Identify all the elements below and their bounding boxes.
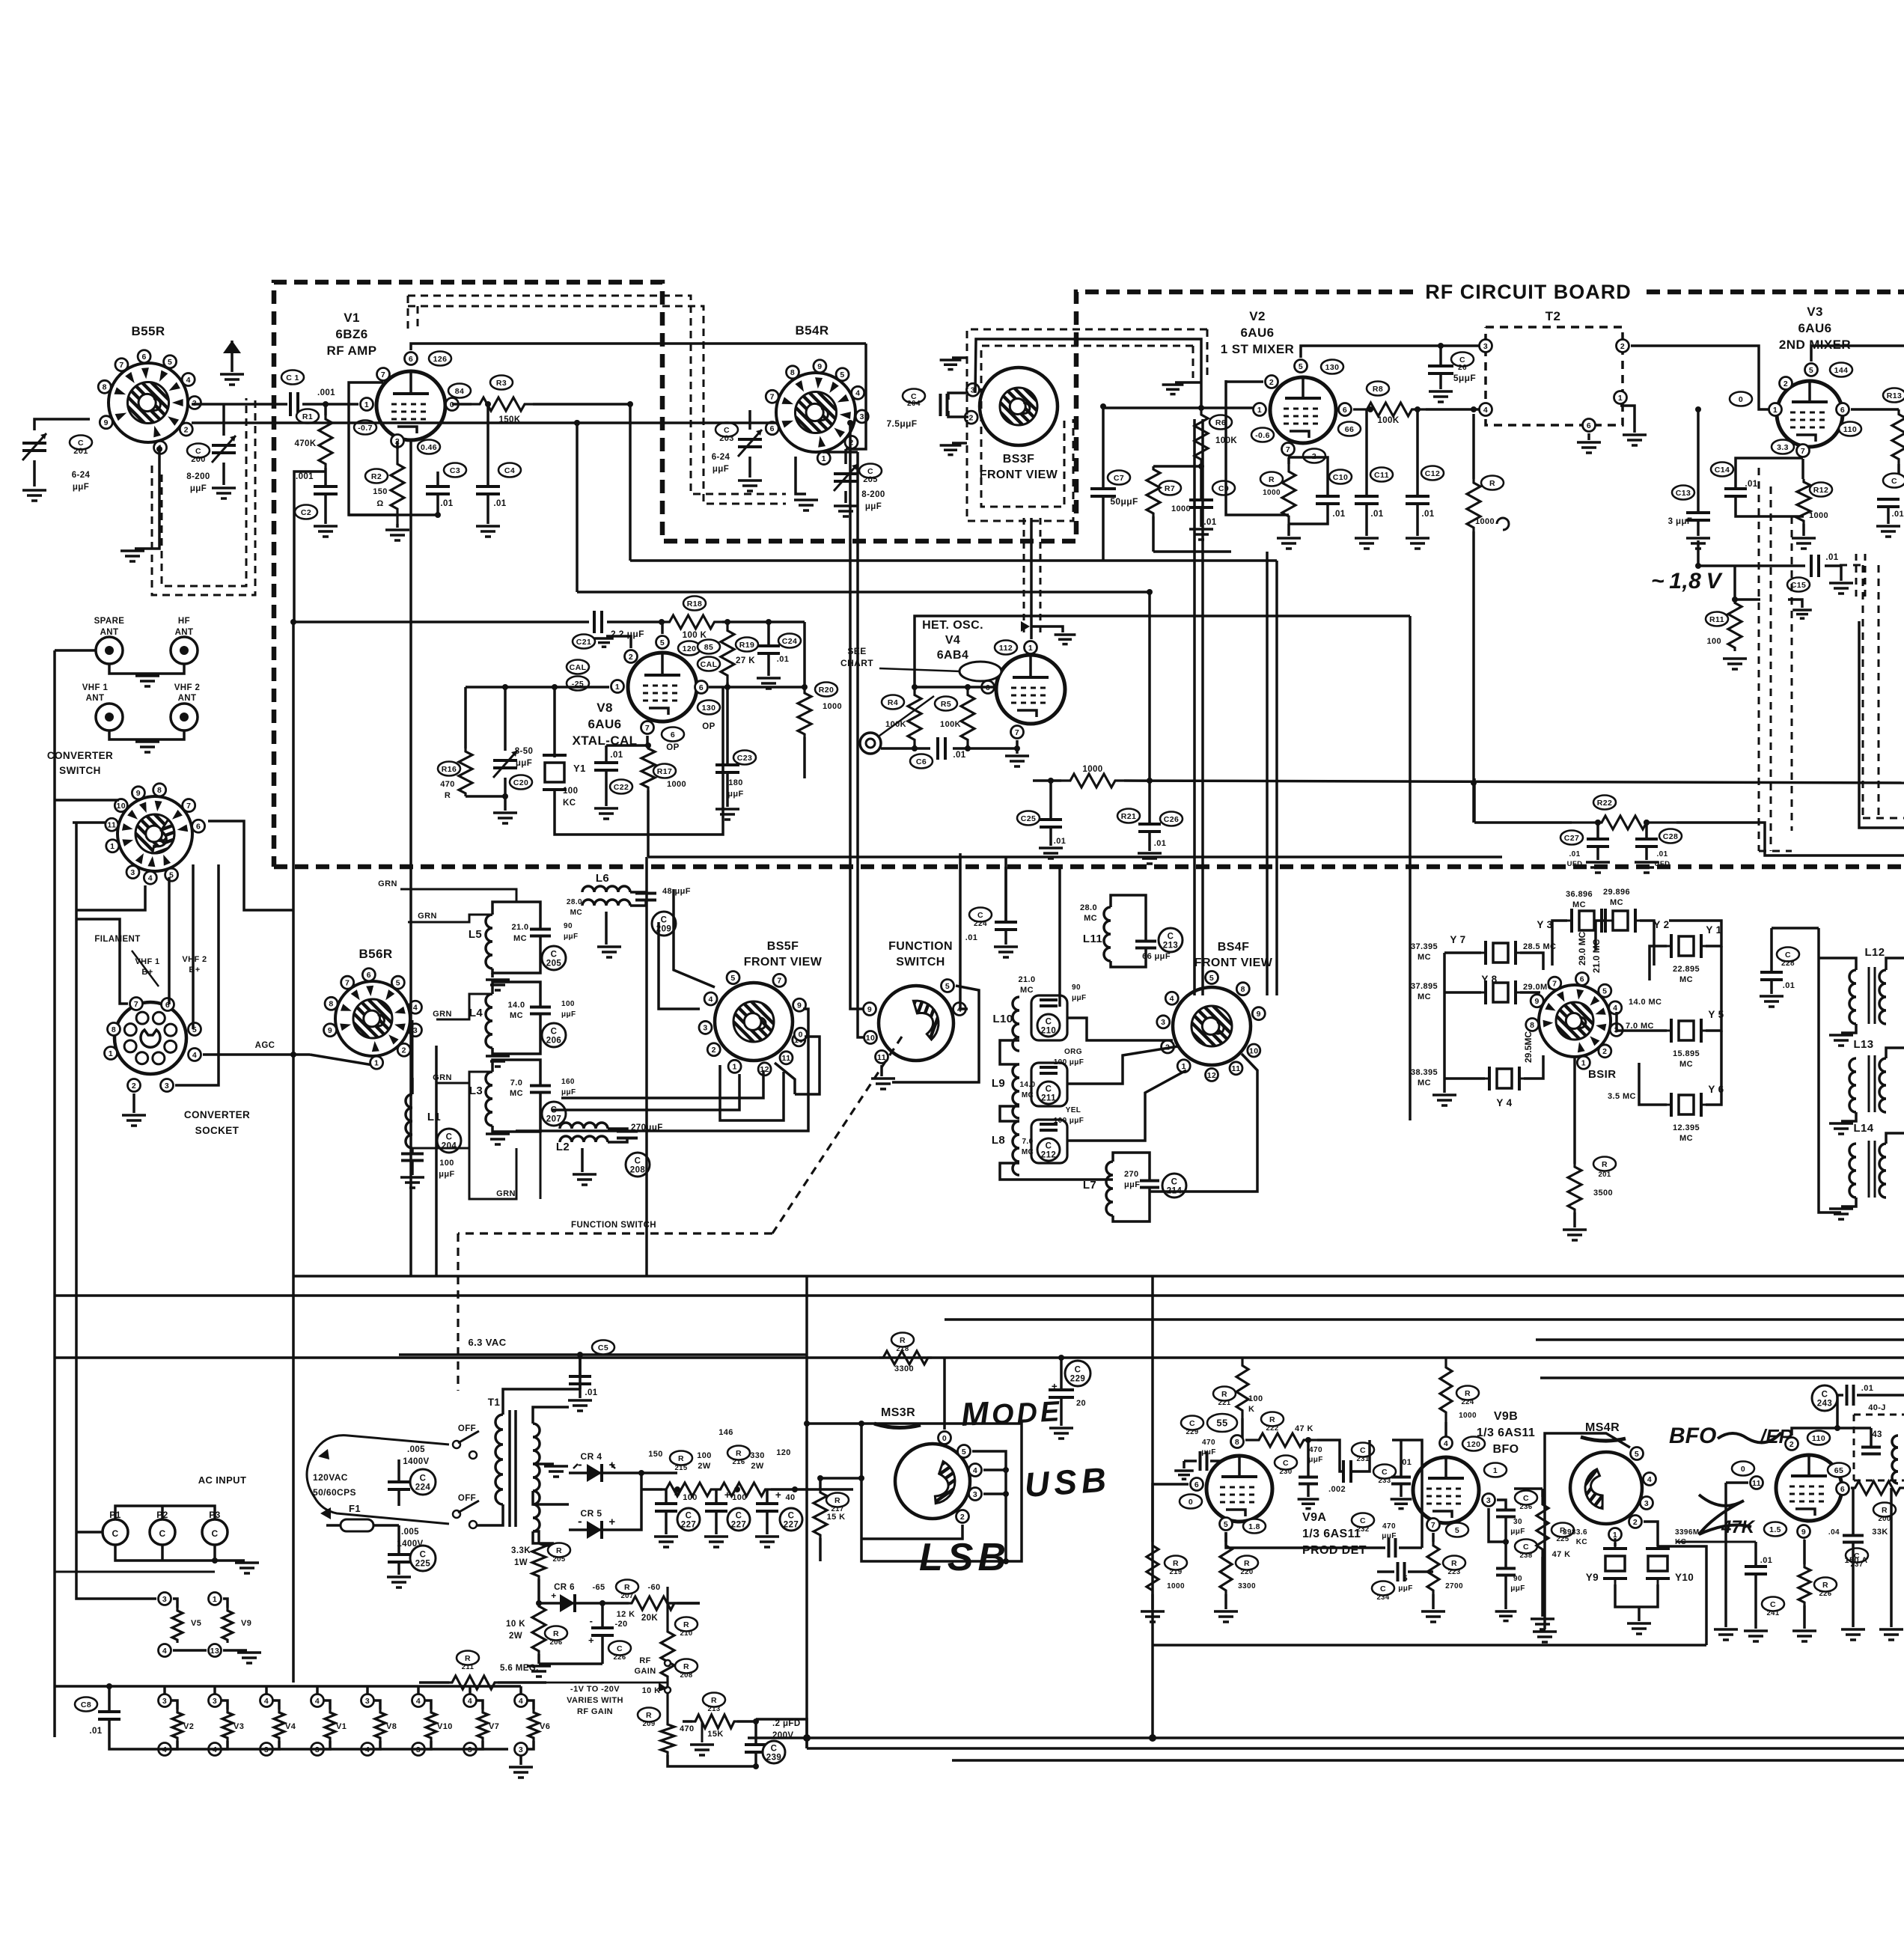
svg-text:229: 229 [1186,1428,1198,1436]
svg-text:6-24: 6-24 [712,453,730,462]
svg-text:126: 126 [433,355,448,364]
svg-text:μμF: μμF [1398,1584,1413,1593]
resistor R20 [815,683,837,697]
svg-text:4: 4 [519,1697,523,1706]
svg-text:6: 6 [1840,1485,1845,1494]
svg-text:150: 150 [373,487,388,496]
svg-text:C10: C10 [1333,473,1348,482]
svg-text:CAL: CAL [701,660,718,669]
svg-text:8: 8 [103,383,107,392]
svg-text:1000: 1000 [1809,511,1828,520]
svg-text:V4: V4 [945,634,960,647]
capacitor C21 [573,635,595,649]
svg-text:μμF: μμF [439,1170,454,1179]
capacitor C243 [1812,1385,1837,1411]
svg-text:6: 6 [409,355,413,364]
svg-text:5: 5 [1224,1520,1228,1529]
svg-text:27 K: 27 K [736,656,755,665]
svg-text:.01: .01 [1203,518,1216,527]
resistor R12 [1810,483,1832,497]
bus vertical 1596 pair [1193,419,1196,995]
svg-text:C28: C28 [1663,832,1678,841]
svg-text:T1: T1 [488,1397,501,1408]
L bank wiring [1058,867,1061,1007]
svg-text:C3: C3 [450,466,460,475]
svg-text:CR 5: CR 5 [581,1508,602,1519]
svg-text:20K: 20K [641,1614,659,1623]
svg-text:R: R [1221,1390,1227,1399]
capacitor C26b [1160,812,1183,826]
svg-text:MC: MC [1418,992,1431,1001]
svg-text:C: C [1046,1085,1052,1094]
socket B56R [335,981,410,1056]
resistor R225 [1551,1523,1574,1537]
svg-text:234: 234 [1376,1593,1389,1602]
svg-text:2W: 2W [698,1462,711,1471]
bus vertical 549 [409,440,412,1276]
svg-text:10 K: 10 K [642,1686,661,1695]
svg-text:8: 8 [1530,1021,1534,1030]
svg-text:7.0: 7.0 [510,1079,523,1088]
capacitor C4 [498,463,521,478]
svg-text:L9: L9 [992,1077,1005,1090]
svg-text:223: 223 [1447,1568,1460,1576]
svg-text:120VAC: 120VAC [313,1472,348,1483]
svg-text:2: 2 [969,413,974,422]
svg-text:2: 2 [712,1046,716,1055]
svg-text:C: C [112,1528,118,1539]
svg-text:.01: .01 [1569,850,1580,858]
svg-text:V2: V2 [1249,309,1266,323]
svg-text:227: 227 [731,1521,746,1530]
svg-text:Y 4: Y 4 [1496,1097,1512,1108]
svg-text:11: 11 [1232,1064,1241,1073]
svg-text:C15: C15 [1791,581,1806,590]
svg-text:5: 5 [1809,366,1813,375]
svg-text:μμF: μμF [190,484,207,493]
svg-text:-: - [578,1514,582,1528]
svg-text:6: 6 [1343,406,1347,415]
svg-text:MC: MC [1679,975,1693,984]
svg-text:.01: .01 [610,751,623,760]
svg-text:230: 230 [1279,1468,1292,1476]
svg-text:V1: V1 [344,311,360,325]
socket BSIR [1539,985,1611,1057]
svg-text:RF CIRCUIT BOARD: RF CIRCUIT BOARD [1425,281,1631,303]
svg-text:MC: MC [1418,953,1431,962]
socket B54R [776,373,855,452]
svg-text:84: 84 [455,387,464,396]
svg-text:μμF: μμF [73,483,89,492]
svg-text:204: 204 [442,1142,457,1151]
svg-text:R: R [1269,475,1275,484]
svg-text:85: 85 [704,643,713,652]
bus y791 [577,591,1150,594]
svg-text:ORG: ORG [1064,1048,1082,1056]
svg-text:21.0: 21.0 [511,923,528,932]
svg-text:.01: .01 [1054,837,1067,846]
svg-text:1000: 1000 [823,702,842,711]
svg-text:14.0: 14.0 [507,1001,525,1010]
svg-text:37.895: 37.895 [1411,982,1438,991]
svg-text:.01: .01 [1745,480,1757,489]
svg-text:144: 144 [1834,366,1849,375]
capacitor C1 [281,370,304,385]
wire grid return [294,472,589,622]
svg-text:21.0: 21.0 [1018,975,1035,984]
svg-text:227: 227 [784,1521,799,1530]
svg-text:R11: R11 [1709,615,1724,624]
svg-text:B54R: B54R [795,323,829,338]
svg-text:C25: C25 [1021,814,1036,823]
svg-text:L6: L6 [596,872,609,885]
svg-text:100K: 100K [885,720,906,729]
svg-text:241: 241 [1766,1609,1779,1617]
resistor R215 [670,1451,692,1465]
svg-text:0.46: 0.46 [421,443,437,452]
svg-text:V8: V8 [596,701,613,715]
svg-text:15.895: 15.895 [1673,1049,1700,1058]
tube V9A [1206,1456,1272,1522]
svg-text:470: 470 [440,780,455,789]
svg-text:2W: 2W [751,1462,764,1471]
svg-text:8: 8 [1235,1438,1239,1447]
MODE box wires [807,1424,1022,1561]
svg-text:110: 110 [1812,1434,1825,1443]
svg-text:6: 6 [699,683,704,692]
svg-text:6: 6 [1840,406,1845,415]
svg-text:C: C [1785,951,1791,960]
svg-text:3.3: 3.3 [1777,443,1789,452]
svg-text:5: 5 [1209,974,1214,983]
svg-text:C12: C12 [1425,469,1440,478]
svg-text:28.0: 28.0 [1080,903,1097,912]
svg-text:100: 100 [439,1159,454,1168]
resistor R218 [891,1333,914,1347]
svg-text:6-24: 6-24 [72,471,91,480]
power wire [641,1488,662,1491]
T2 pin 4 [1480,403,1492,416]
svg-text:C: C [1046,1018,1052,1027]
bus vertical 1540 [1151,1276,1154,1738]
T2 pin 1 [1614,391,1627,404]
svg-text:243: 243 [1817,1400,1832,1409]
resistor R200 [1851,1481,1904,1495]
svg-text:C: C [617,1644,623,1653]
jack HF ANT [171,637,198,664]
svg-text:0: 0 [1739,395,1743,404]
svg-text:-0.6: -0.6 [1255,431,1270,440]
resistor R221 [1213,1387,1236,1401]
svg-text:V9A: V9A [1302,1511,1326,1524]
svg-text:0: 0 [942,1434,947,1443]
svg-text:MC: MC [1679,1134,1693,1143]
svg-text:Y 2: Y 2 [1653,919,1669,930]
svg-text:3: 3 [973,1490,977,1499]
svg-text:BFO: BFO [1493,1443,1519,1456]
svg-text:40: 40 [785,1493,795,1502]
svg-text:2: 2 [1269,378,1274,387]
B+ node wire [641,1471,677,1474]
svg-text:MC: MC [1084,914,1097,923]
pin 6 V8 [695,681,708,694]
svg-text:1: 1 [1028,644,1033,653]
svg-text:VARIES WITH: VARIES WITH [567,1696,623,1705]
svg-text:4: 4 [264,1697,269,1706]
svg-text:μμF: μμF [1510,1528,1525,1536]
svg-text:205: 205 [552,1555,565,1564]
pin 2 V8 [625,650,638,663]
svg-text:μμF: μμF [1510,1584,1525,1593]
svg-text:1: 1 [109,1049,113,1058]
svg-text:38.395: 38.395 [1411,1068,1438,1077]
svg-text:ANT: ANT [178,694,197,703]
svg-text:SPARE: SPARE [94,617,125,626]
converter socket [115,1002,186,1074]
svg-text:43: 43 [1872,1430,1882,1439]
svg-text:L3: L3 [469,1085,483,1097]
svg-text:L13: L13 [1853,1038,1873,1051]
svg-text:225: 225 [415,1560,431,1569]
svg-text:USB: USB [1023,1459,1111,1504]
jack VHF1 ANT [96,704,123,730]
svg-text:3: 3 [213,1697,217,1706]
svg-text:.01: .01 [1861,1384,1874,1393]
bus y1814 [55,1356,1904,1359]
pin 5 V3 [1805,364,1818,376]
svg-text:C4: C4 [504,466,515,475]
svg-text:8: 8 [157,786,162,795]
svg-text:7: 7 [345,978,350,987]
svg-text:226: 226 [613,1653,626,1662]
svg-text:C2: C2 [301,508,311,517]
svg-text:213: 213 [1163,942,1178,951]
pin 5 V2 [1295,360,1308,373]
svg-text:MC: MC [1022,1148,1034,1156]
svg-text:C: C [1360,1516,1366,1525]
svg-text:8: 8 [1241,985,1245,994]
svg-text:FUNCTION SWITCH: FUNCTION SWITCH [571,1221,656,1230]
resistor R209 470 [638,1708,660,1722]
svg-text:MC: MC [1610,898,1623,907]
right side dashed shield pair [1758,468,1760,851]
svg-text:203: 203 [719,434,734,443]
tube V3 [1777,381,1843,447]
svg-text:100: 100 [732,1493,747,1502]
svg-text:48 μμF: 48 μμF [662,887,691,896]
wire V3 plate [1811,346,1904,362]
wire R7 row [1153,465,1201,468]
svg-text:R8: R8 [1373,385,1383,394]
svg-text:7: 7 [1552,979,1557,988]
svg-text:.001: .001 [296,472,314,481]
svg-text:L4: L4 [469,1007,483,1019]
svg-text:C: C [159,1528,165,1539]
svg-text:RF GAIN: RF GAIN [577,1707,613,1716]
gnd stub V8 pin2 [606,636,631,648]
function switch gnd [880,1065,883,1076]
svg-text:224: 224 [974,920,987,928]
svg-text:7: 7 [1286,445,1290,454]
svg-text:12: 12 [1207,1071,1216,1080]
bus y1790 [1536,1338,1904,1341]
svg-text:MC: MC [1022,1091,1034,1099]
capacitor C234 [1372,1581,1394,1596]
svg-text:146: 146 [718,1428,733,1437]
ovals 130 OP [698,701,720,715]
right edge resistor R13 [1883,388,1904,403]
svg-text:R: R [1244,1559,1250,1568]
svg-text:224: 224 [1461,1398,1474,1406]
svg-text:3300: 3300 [894,1364,914,1373]
svg-text:215: 215 [674,1464,687,1472]
resistor R22 [1593,796,1616,810]
svg-text:6AU6: 6AU6 [1240,326,1274,340]
svg-text:C8: C8 [81,1700,91,1709]
resistor R222 [1261,1412,1284,1427]
svg-text:BS3F: BS3F [1003,453,1035,466]
capacitor C27 [1560,831,1583,845]
svg-text:C: C [1168,933,1174,942]
svg-text:1/3 6AS11: 1/3 6AS11 [1477,1427,1535,1439]
svg-text:.01: .01 [1656,850,1667,858]
svg-text:4: 4 [416,1697,421,1706]
svg-text:.01: .01 [1332,510,1345,519]
svg-text:207: 207 [546,1115,561,1124]
svg-text:.01: .01 [493,499,506,508]
capacitor C8 [75,1697,97,1712]
svg-text:OP: OP [666,743,679,752]
tube V8 [628,653,697,722]
BS5F wiring right [516,1009,808,1131]
svg-text:1 ST MIXER: 1 ST MIXER [1221,342,1294,356]
jack VHF2 ANT [171,704,198,730]
svg-text:R12: R12 [1813,486,1828,495]
svg-text:C22: C22 [614,783,629,792]
svg-text:R: R [445,791,451,800]
svg-text:1: 1 [110,842,115,851]
svg-text:C: C [1770,1600,1776,1609]
svg-text:C: C [420,1474,427,1483]
svg-text:9: 9 [1801,1528,1806,1537]
svg-text:R: R [1882,1506,1888,1515]
pin 6 V3 [1837,403,1849,416]
svg-text:CONVERTER: CONVERTER [47,750,113,761]
resistor R18 [683,597,706,611]
svg-text:C: C [724,426,730,435]
socket MS3R [895,1444,970,1519]
shield cable BS3F to V2 [975,339,1201,406]
svg-text:6BZ6: 6BZ6 [335,327,367,341]
svg-text:R: R [683,1620,689,1629]
svg-text:OP: OP [702,722,715,731]
svg-text:100K: 100K [940,720,961,729]
svg-text:B56R: B56R [358,947,392,961]
svg-text:+: + [608,1516,615,1528]
svg-text:R: R [1173,1559,1179,1568]
capacitor C204 [903,389,925,403]
svg-text:C7: C7 [1114,474,1124,483]
svg-text:9: 9 [1535,997,1540,1006]
svg-text:μμF: μμF [564,933,579,941]
svg-text:50μμF: 50μμF [1110,496,1138,507]
svg-text:C21: C21 [576,638,591,647]
svg-text:.01: .01 [1892,510,1904,519]
socket BS5F [715,983,793,1061]
svg-text:C: C [1822,1391,1828,1400]
svg-text:ANT: ANT [86,694,105,703]
svg-text:1400V: 1400V [403,1457,429,1466]
svg-text:R18: R18 [687,600,702,608]
svg-text:220: 220 [1240,1568,1253,1576]
svg-text:2W: 2W [509,1632,522,1641]
tube V2 [1270,377,1336,443]
svg-text:FRONT VIEW: FRONT VIEW [744,956,823,968]
svg-text:C: C [420,1551,427,1560]
resistor R3 [490,376,513,390]
svg-text:130: 130 [702,704,716,713]
svg-text:22.895: 22.895 [1673,965,1700,974]
wire BS3F to V2 grid [1103,406,1260,409]
svg-text:C: C [1523,1494,1529,1503]
socket BS4F [1173,987,1251,1065]
svg-text:239: 239 [766,1754,781,1763]
socket B55R [109,363,188,442]
svg-text:65: 65 [1834,1466,1843,1475]
capacitor C235 [1373,1465,1396,1479]
svg-text:FUNCTION: FUNCTION [888,940,953,953]
T2 pin 6 [1583,419,1596,432]
svg-text:9: 9 [328,1026,332,1035]
svg-text:3: 3 [365,1697,370,1706]
svg-text:11: 11 [107,821,116,830]
svg-text:BS5F: BS5F [767,940,799,953]
svg-text:L12: L12 [1864,946,1885,959]
P wiring [115,1506,215,1519]
svg-text:1: 1 [364,400,369,409]
svg-text:14.0: 14.0 [1019,1081,1035,1089]
capacitor C24 [778,634,801,648]
svg-text:216: 216 [732,1458,745,1466]
svg-text:4: 4 [186,376,191,385]
svg-text:330: 330 [750,1451,765,1460]
svg-text:Y9: Y9 [1586,1572,1599,1583]
capacitor C3 [444,463,466,478]
svg-text:8: 8 [329,1000,333,1009]
rotary function switch [879,986,953,1061]
svg-text:1: 1 [374,1059,379,1068]
V9 section wiring [1153,1484,1189,1542]
crystal Y4 [1479,1078,1489,1080]
svg-text:2700: 2700 [1445,1582,1463,1590]
svg-text:C: C [1459,356,1465,364]
svg-text:222: 222 [1266,1424,1278,1433]
svg-text:C9: C9 [1218,484,1229,493]
svg-text:R: R [624,1583,630,1592]
svg-text:7.0: 7.0 [1022,1138,1033,1146]
svg-text:6: 6 [770,424,775,433]
svg-text:C: C [635,1157,641,1166]
capacitor C23 [733,751,756,765]
capacitor C9 [1212,481,1235,495]
svg-text:AC INPUT: AC INPUT [198,1474,247,1486]
svg-text:1/3 6AS11: 1/3 6AS11 [1302,1528,1361,1540]
svg-text:28.0: 28.0 [567,898,582,906]
svg-text:V3: V3 [1807,305,1823,319]
svg-text:KC: KC [1576,1538,1587,1546]
capacitor C203 [715,423,738,437]
svg-text:7: 7 [645,724,650,733]
